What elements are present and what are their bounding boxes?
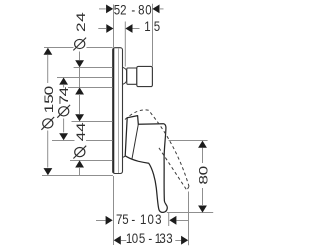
dim 52-80 right tail <box>160 8 164 10</box>
arrowhead dia150 bottom <box>44 168 53 175</box>
arrowhead 75-103 right <box>169 216 176 225</box>
label dia 24 digits <box>74 12 88 32</box>
arrowhead dia24 bottom / dia44 top <box>75 87 84 94</box>
svg-text:-: - <box>131 1 135 17</box>
svg-text:4: 4 <box>74 132 88 142</box>
svg-text:0: 0 <box>148 211 154 227</box>
extension line dia74 bottom left part <box>52 140 75 142</box>
extension line from handle tip down <box>168 213 170 226</box>
lever handle open position (dashed outline) <box>125 110 189 190</box>
arrowhead 15 left <box>106 24 113 33</box>
extension line from plate back edge up <box>113 5 115 48</box>
arrowhead 105-133 left <box>114 236 121 245</box>
dia24 dimension line above <box>79 52 81 61</box>
svg-text:8: 8 <box>197 175 211 185</box>
diameter symbol for dia24 <box>73 38 86 51</box>
svg-text:1: 1 <box>144 18 150 34</box>
extension line plate top left part <box>44 47 74 49</box>
extension line dia44 bottom <box>72 121 113 123</box>
arrowhead 105-133 right <box>181 236 188 245</box>
arrowhead 52-80 left <box>106 5 113 14</box>
dim 105-133 line right segment <box>175 240 181 242</box>
extension line from dashed handle tip down <box>188 192 190 246</box>
svg-text:8: 8 <box>138 1 144 17</box>
label 52 - 80 <box>114 1 152 17</box>
diameter symbol for dia150 <box>41 117 54 130</box>
arrowhead dia44 bottom <box>75 114 84 121</box>
extension line dia24 top <box>74 67 113 69</box>
extension line from plate bottom down <box>113 176 115 245</box>
svg-text:2: 2 <box>120 1 126 17</box>
dia150 dimension line lower <box>47 131 49 168</box>
arrowhead 52-80 right <box>152 5 159 14</box>
handle base foot curve to plate <box>123 156 125 157</box>
arrowhead dia74 top <box>59 78 68 85</box>
svg-text:5: 5 <box>114 1 120 17</box>
plate inner contour line <box>118 48 120 173</box>
extension line dia74 top <box>57 77 113 79</box>
dia74 dimension line upper <box>63 85 65 88</box>
extension line plate bottom <box>42 175 113 177</box>
dia44 dimension line below <box>79 168 81 176</box>
diameter symbol for dia44 <box>73 146 86 159</box>
dim 75-103 right tail <box>176 220 189 222</box>
svg-text:7: 7 <box>57 95 71 105</box>
extension line 80 bottom <box>167 212 213 214</box>
label dia 150 digits <box>42 86 56 114</box>
valve stem ring <box>127 68 137 84</box>
dia24 dimension line span <box>79 68 81 88</box>
plate back edge (thick wall-side line) <box>112 49 114 173</box>
label 80 digits <box>197 166 211 185</box>
extension line plate top right part <box>87 47 113 49</box>
svg-text:3: 3 <box>155 211 161 227</box>
dim 80 line upper <box>202 148 204 163</box>
svg-text:5: 5 <box>42 94 56 104</box>
svg-text:5: 5 <box>154 18 160 34</box>
handle base/grip divider line <box>132 124 138 159</box>
arrowhead dia150 top <box>44 48 53 55</box>
arrowhead dia24 top <box>75 60 84 67</box>
dia44 dimension line span <box>79 95 81 114</box>
svg-text:3: 3 <box>166 230 172 246</box>
diameter symbol for dia74 <box>57 105 70 118</box>
svg-text:5: 5 <box>122 211 128 227</box>
arrowhead 75-103 left <box>106 216 113 225</box>
extension line 80 top <box>169 140 208 142</box>
label 15 <box>144 18 160 34</box>
lever handle solid outline (closed position) <box>125 116 167 213</box>
svg-text:1: 1 <box>42 104 56 114</box>
svg-text:2: 2 <box>74 22 88 32</box>
svg-text:3: 3 <box>159 230 165 246</box>
svg-text:0: 0 <box>197 166 211 176</box>
svg-text:4: 4 <box>74 122 88 132</box>
svg-text:4: 4 <box>57 87 71 97</box>
stop valve knob <box>137 66 153 86</box>
dim 75-103 left tail <box>96 220 106 222</box>
dim 80 line lower <box>202 188 204 205</box>
svg-text:0: 0 <box>132 230 138 246</box>
dim 52-80 left tail <box>99 8 106 10</box>
arrowhead 15 right <box>125 24 132 33</box>
extension line from knob right face up <box>152 4 154 66</box>
dim 15 left tail <box>98 28 106 30</box>
extension line dia74 bottom right part <box>86 140 113 142</box>
arrowhead 80 bottom <box>198 206 207 213</box>
arrowhead 80 top <box>198 141 207 148</box>
svg-text:5: 5 <box>139 230 145 246</box>
svg-text:4: 4 <box>74 12 88 22</box>
dia74 dimension line lower <box>63 119 65 133</box>
svg-text:-: - <box>131 211 135 227</box>
label dia 74 digits <box>57 87 71 105</box>
svg-text:0: 0 <box>42 86 56 96</box>
extension line at plate front <box>124 22 126 67</box>
valve stem neck flare <box>123 67 127 84</box>
label dia 44 digits <box>74 122 88 141</box>
arrowhead lower-left dim <box>75 160 84 167</box>
svg-text:1: 1 <box>140 211 146 227</box>
escutcheon plate outline (side view) <box>113 48 123 174</box>
label 105 - 133 <box>126 230 173 246</box>
svg-text:0: 0 <box>145 1 151 17</box>
extension line handle underside <box>70 160 113 162</box>
extension line dia24 bottom / dia44 top <box>68 87 113 89</box>
arrowhead dia74 bottom <box>59 133 68 140</box>
dim 105-133 line left segment <box>121 240 126 242</box>
svg-text:7: 7 <box>116 211 122 227</box>
dim 15 right tail <box>133 28 140 30</box>
svg-text:-: - <box>148 230 152 246</box>
label 75 - 103 <box>116 211 161 227</box>
dia150 dimension line upper <box>47 55 49 83</box>
